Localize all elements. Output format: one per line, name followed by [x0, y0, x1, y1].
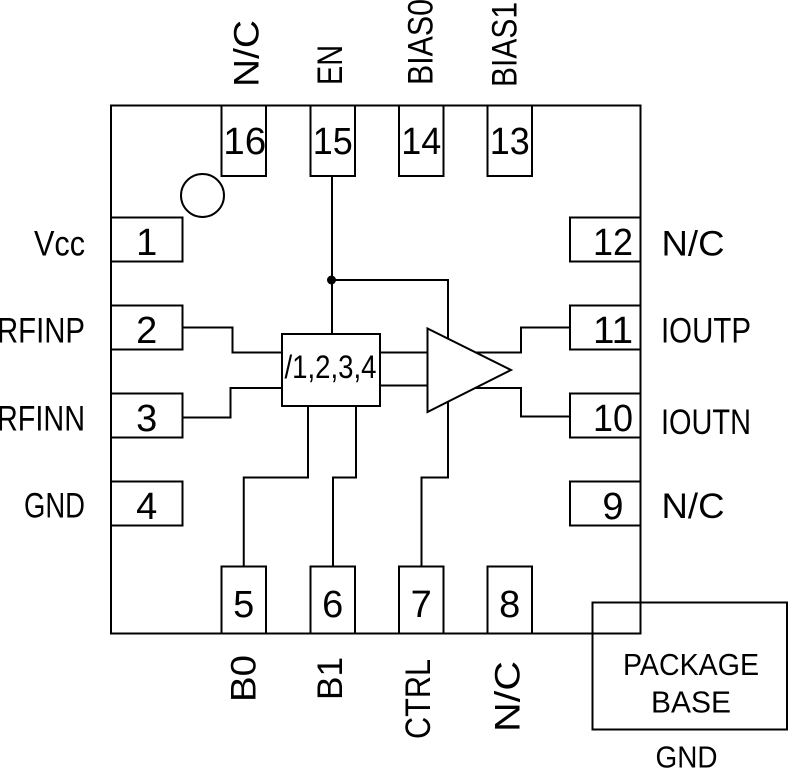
svg-text:14: 14 — [401, 121, 441, 163]
svg-text:16: 16 — [223, 121, 266, 163]
svg-text:2: 2 — [136, 310, 157, 352]
pin 5 box — [222, 567, 267, 634]
svg-text:3: 3 — [136, 398, 157, 440]
wire RFINP pin2 to divider — [183, 328, 283, 353]
svg-text:11: 11 — [593, 310, 633, 352]
svg-text:GND: GND — [24, 487, 85, 526]
svg-text:B1: B1 — [311, 657, 350, 700]
op-amp buffer triangle — [428, 329, 512, 413]
pin 4 box — [111, 482, 183, 526]
wire divider to amp top — [380, 352, 428, 354]
svg-text:5: 5 — [233, 584, 254, 626]
svg-text:N/C: N/C — [662, 487, 725, 526]
svg-text:N/C: N/C — [662, 225, 725, 264]
wire divider to amp bottom — [380, 385, 428, 387]
wire B0 divider to pin5 — [244, 406, 308, 567]
svg-text:BIAS0: BIAS0 — [402, 0, 441, 85]
svg-text:B0: B0 — [225, 655, 264, 702]
svg-text:6: 6 — [322, 584, 343, 626]
pin 16 box — [222, 106, 267, 177]
svg-text:12: 12 — [593, 222, 633, 264]
pin 12 box — [570, 218, 641, 262]
wire amp to IOUTN pin10 — [475, 388, 570, 417]
pin 14 box — [399, 106, 444, 177]
svg-text:N/C: N/C — [489, 661, 528, 732]
pin 1 box — [111, 218, 183, 262]
pin 9 box — [570, 482, 641, 526]
svg-text:1: 1 — [136, 222, 157, 264]
svg-text:RFINN: RFINN — [0, 400, 85, 439]
svg-text:CTRL: CTRL — [399, 659, 438, 739]
wire B1 divider to pin6 — [333, 406, 356, 567]
svg-text:13: 13 — [490, 121, 530, 163]
wire EN branch to amp and CTRL pin7 — [332, 280, 448, 567]
pin 8 box — [488, 567, 533, 634]
wire RFINN pin3 to divider — [183, 388, 283, 418]
svg-text:EN: EN — [311, 45, 350, 85]
svg-text:9: 9 — [602, 486, 623, 528]
svg-text:IOUTN: IOUTN — [661, 403, 751, 442]
svg-text:BASE: BASE — [651, 685, 731, 720]
svg-text:4: 4 — [136, 486, 157, 528]
svg-text:RFINP: RFINP — [0, 312, 85, 351]
pin 11 box — [570, 306, 641, 350]
wire EN pin15 to divider — [331, 176, 333, 334]
svg-text:N/C: N/C — [228, 20, 267, 87]
pin 10 box — [570, 394, 641, 438]
pin 3 box — [111, 394, 183, 438]
pin 13 box — [488, 106, 533, 177]
svg-text:GND: GND — [656, 740, 718, 772]
svg-text:/1,2,3,4: /1,2,3,4 — [285, 349, 377, 385]
pin-1 indicator circle — [181, 174, 224, 217]
svg-text:Vcc: Vcc — [34, 225, 85, 264]
pin 2 box — [111, 306, 183, 350]
pin 6 box — [311, 567, 356, 634]
svg-text:PACKAGE: PACKAGE — [623, 647, 759, 682]
svg-text:IOUTP: IOUTP — [661, 312, 751, 351]
svg-text:15: 15 — [313, 121, 353, 163]
svg-text:BIAS1: BIAS1 — [486, 2, 525, 87]
pin 15 box — [311, 106, 356, 177]
package outline — [111, 106, 641, 634]
svg-text:7: 7 — [411, 584, 432, 626]
package base box — [593, 603, 788, 730]
junction dot EN node — [327, 276, 336, 285]
svg-text:10: 10 — [593, 398, 633, 440]
divider block /1,2,3,4 — [282, 334, 380, 406]
pin 7 box — [399, 567, 444, 634]
wire amp to IOUTP pin11 — [476, 328, 570, 353]
svg-text:8: 8 — [499, 584, 520, 626]
